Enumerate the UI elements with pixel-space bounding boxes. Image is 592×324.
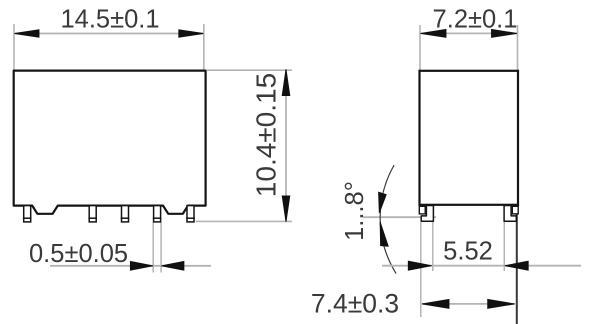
pin 2 (left view) (89, 206, 96, 222)
dimension 7.2±0.1 extension line left (419, 25, 421, 70)
dimension 10.4±0.15 extension line bottom (196, 220, 293, 222)
dimension 7.4±0.3 extension line left (420, 222, 422, 317)
dimension 14.5±0.1 extension line right (203, 24, 205, 70)
angle arrow lower (380, 222, 388, 246)
svg-text:0.5±0.05: 0.5±0.05 (29, 240, 128, 268)
dimension 10.4±0.15 arrow top (282, 69, 290, 95)
pin 3 (left view) (122, 206, 129, 222)
dimension 0.5±0.05 extension line right (from pin 4) (160, 222, 162, 273)
pin 5 tick (186, 217, 195, 219)
dimension 7.2±0.1 arrow right (492, 29, 518, 37)
dimension 10.4±0.15 arrow bottom (282, 196, 290, 222)
dimension 5.52 arrow left (408, 261, 431, 270)
right view body outline (420, 71, 519, 205)
dimension 5.52 extension line left (432, 222, 434, 271)
pin 4 (left view) (154, 206, 161, 222)
pin 2 tick (88, 217, 97, 219)
svg-text:14.5±0.1: 14.5±0.1 (60, 6, 159, 34)
dimension 14.5±0.1 arrow left (15, 30, 40, 37)
pin 4 tick (153, 217, 162, 219)
left view body outline (14, 71, 206, 214)
dimension 0.5±0.05 arrow left (130, 261, 153, 270)
svg-text:1...8°: 1...8° (341, 181, 369, 241)
svg-text:7.4±0.3: 7.4±0.3 (311, 289, 399, 319)
dimension 7.4±0.3 extension line right (dark) (516, 205, 518, 324)
dimension 10.4±0.15 extension line top (207, 69, 292, 71)
dimension 14.5±0.1 extension line left (13, 24, 15, 70)
pin 1 (left view) (24, 206, 31, 222)
dimension 5.52 arrow right (505, 261, 528, 270)
svg-text:5.52: 5.52 (443, 238, 493, 266)
angle reference line (seating plane) (363, 216, 436, 218)
svg-text:10.4±0.15: 10.4±0.15 (251, 73, 282, 197)
svg-text:7.2±0.1: 7.2±0.1 (433, 5, 518, 33)
dimension 7.2±0.1 dimension line (420, 32, 518, 34)
dimension 7.4±0.3 dimension line (422, 303, 515, 305)
dimension 0.5±0.05 extension line left (from pin 4) (152, 222, 154, 273)
dimension 7.2±0.1 extension line right (517, 25, 519, 70)
right pin bent foot (right view) (504, 206, 516, 222)
dimension 5.52 dimension line (382, 265, 581, 267)
dimension 0.5±0.05 arrow right (161, 261, 184, 270)
pin 5 (left view) (187, 206, 194, 222)
pin 3 tick (121, 217, 130, 219)
dimension 7.4±0.3 arrow right (488, 299, 515, 308)
dimension 10.4±0.15 dimension line (285, 70, 287, 221)
angle arrow upper (379, 192, 387, 213)
right pin stub (right view) (512, 206, 518, 214)
left pin bent foot (right view) (421, 206, 433, 222)
dimension 5.52 extension line right (503, 222, 505, 271)
left pin stub (right view) (419, 206, 425, 214)
dimension 14.5±0.1 dimension line (14, 33, 204, 35)
dimension 14.5±0.1 arrow right (179, 30, 204, 37)
angle arc (380, 165, 396, 274)
dimension 7.4±0.3 arrow left (422, 299, 449, 308)
pin 1 tick (23, 217, 32, 219)
dimension 0.5±0.05 dimension line (50, 265, 211, 267)
dimension 7.2±0.1 arrow left (421, 29, 447, 37)
